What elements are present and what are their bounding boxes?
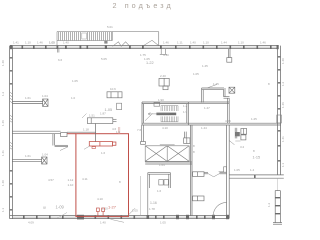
red highlight rectangle room 1-27: [76, 134, 129, 217]
door swing at bottom-left window: [58, 213, 68, 219]
svg-text:1.46: 1.46: [163, 41, 169, 45]
wall stub above elevator left: [141, 125, 146, 144]
svg-text:1.2: 1.2: [183, 104, 188, 108]
top-right room wall y89: [202, 88, 230, 103]
interior wall y102: [12, 102, 43, 104]
svg-text:4.10: 4.10: [97, 197, 103, 201]
exterior bottom wall: [10, 216, 229, 219]
svg-text:1.12: 1.12: [68, 178, 74, 182]
svg-text:4.10: 4.10: [163, 53, 169, 57]
svg-text:1.46: 1.46: [1, 120, 5, 126]
svg-text:ш: ш: [43, 206, 46, 210]
door swing upper-left of desk: [82, 114, 87, 119]
svg-text:1.11: 1.11: [177, 41, 183, 45]
french door swing zigzag: [113, 42, 130, 47]
svg-text:1-09: 1-09: [56, 205, 65, 210]
svg-text:1.05: 1.05: [193, 72, 199, 76]
box right of wall x191 bottom: [193, 196, 204, 201]
svg-text:8: 8: [119, 180, 121, 184]
stair direction line with arrow: [148, 113, 170, 116]
light partition line x140: [139, 176, 141, 216]
corridor south wall y173 with double door: [204, 172, 227, 174]
svg-text:5.05: 5.05: [101, 57, 107, 61]
svg-text:1.40: 1.40: [190, 41, 196, 45]
fixtures below corridor wall at x222: [235, 128, 246, 140]
wc walls (P shape): [148, 173, 171, 216]
stub below top wall at x228: [227, 49, 232, 63]
light pink partition right of desk: [118, 127, 120, 134]
door swing above wall y89: [208, 85, 217, 88]
svg-text:4.09: 4.09: [28, 221, 34, 225]
svg-text:1-15: 1-15: [253, 156, 261, 160]
svg-text:1.40: 1.40: [1, 60, 5, 66]
svg-text:1.05: 1.05: [49, 41, 55, 45]
shaft box top-right room: [229, 87, 235, 93]
pier box at end of wall y132: [61, 133, 67, 137]
svg-text:1.78: 1.78: [149, 207, 155, 211]
door swing arc bottom-right: [213, 202, 226, 215]
wall y103 right section: [188, 102, 229, 104]
dark wall segment over red top edge: [67, 131, 96, 133]
svg-text:1.05: 1.05: [132, 209, 138, 213]
svg-text:1.45: 1.45: [202, 64, 208, 68]
small chair furniture: [117, 103, 122, 109]
svg-text:1.2: 1.2: [281, 81, 285, 86]
svg-text:1.46: 1.46: [260, 41, 266, 45]
svg-text:1.44: 1.44: [221, 41, 227, 45]
elevator bottom wall: [145, 162, 192, 164]
svg-text:5.01: 5.01: [107, 25, 113, 29]
svg-text:2.40: 2.40: [160, 74, 166, 78]
elevator shelf line: [160, 144, 175, 146]
corridor wall x191: [190, 125, 192, 216]
dimension texts top row: [13, 25, 266, 45]
svg-text:1.40: 1.40: [1, 180, 5, 186]
svg-text:1.46: 1.46: [37, 41, 43, 45]
bottom wall piers: [23, 215, 229, 220]
svg-text:4.10: 4.10: [162, 126, 168, 130]
svg-text:8: 8: [253, 149, 255, 153]
exterior right wall: [278, 46, 281, 175]
svg-text:1.41: 1.41: [1, 150, 5, 156]
porch right wall: [158, 32, 160, 46]
furniture top-middle room: [159, 78, 169, 89]
right loggia column strip: [273, 191, 282, 225]
door swing below furniture: [84, 146, 90, 149]
left wall hatched pier: [10, 92, 13, 150]
elevator shaft with x-bracing: [145, 146, 189, 162]
balcony slab top edge: [57, 31, 159, 33]
crossed pier at end of wall y160: [42, 157, 47, 164]
svg-text:1.05: 1.05: [72, 79, 78, 83]
svg-text:1.61: 1.61: [25, 96, 31, 100]
door swing at closet: [60, 147, 68, 151]
svg-text:3.2: 3.2: [240, 145, 245, 149]
dimension texts left margin (rotated): [1, 60, 5, 212]
pier notch on wall x227: [224, 167, 227, 172]
right wall piers: [277, 56, 282, 162]
stair lower treads: [161, 116, 178, 121]
vertical wall x228 down to corridor: [228, 98, 230, 123]
bottom wall glazing line: [12, 216, 212, 218]
top wall window glazing line: [12, 46, 277, 48]
svg-text:1.45: 1.45: [213, 82, 219, 86]
left wall piers: [9, 57, 13, 211]
porch door swing: [144, 40, 158, 45]
svg-text:1.40: 1.40: [63, 41, 69, 45]
svg-text:1.1: 1.1: [1, 207, 5, 212]
exterior left wall: [10, 46, 13, 219]
exterior top wall: [10, 46, 279, 49]
balcony left edge: [56, 32, 58, 46]
loggia strip ticks: [275, 197, 280, 214]
svg-text:1.87: 1.87: [100, 112, 106, 116]
svg-text:1.10: 1.10: [102, 207, 108, 211]
svg-text:1.46: 1.46: [281, 102, 285, 108]
dark pier in fixture cluster: [235, 132, 240, 136]
red top edge extension to wall pier: [67, 133, 76, 135]
svg-text:4.11: 4.11: [82, 177, 88, 181]
svg-text:1.90: 1.90: [158, 98, 164, 102]
svg-text:1.47: 1.47: [204, 106, 210, 110]
desk above red room: [87, 118, 116, 124]
svg-text:8: 8: [193, 144, 195, 148]
door swing in bottom wall mid: [111, 219, 125, 222]
balcony hatching left part: [59, 32, 81, 40]
svg-text:8: 8: [268, 82, 270, 86]
bottom-right horizontal wall y178: [229, 175, 284, 178]
red door jambs on bottom wall: [97, 208, 105, 216]
svg-text:1-16: 1-16: [150, 201, 157, 205]
svg-text:1.2: 1.2: [1, 91, 5, 96]
red furniture block A: [89, 142, 116, 146]
stair landing bar: [156, 113, 176, 116]
door swing inside stair: [145, 113, 153, 120]
interior annotation texts: [25, 41, 285, 225]
faint link right wall to loggia strip: [277, 178, 279, 190]
red tick below furniture: [92, 147, 96, 149]
svg-text:1.04: 1.04: [42, 153, 48, 157]
svg-text:1-27: 1-27: [108, 204, 117, 209]
svg-text:1.1: 1.1: [281, 162, 285, 167]
balcony right border: [111, 32, 113, 41]
svg-text:7.6: 7.6: [137, 128, 142, 132]
crossed pier at end of wall y102: [43, 99, 48, 106]
top wall piers: [10, 45, 279, 49]
closet wall L-shape at x53: [53, 134, 68, 146]
balcony slab bottom edge: [57, 40, 112, 42]
svg-text:1.41: 1.41: [281, 136, 285, 142]
svg-text:1.61: 1.61: [25, 154, 31, 158]
svg-text:1.4: 1.4: [250, 168, 255, 172]
tick marks below cluster: [235, 140, 240, 142]
svg-text:1.40: 1.40: [100, 221, 106, 225]
svg-text:10.6: 10.6: [110, 87, 116, 91]
pier tick on wall y175: [254, 175, 256, 179]
svg-text:1.05: 1.05: [234, 168, 240, 172]
svg-text:1.10: 1.10: [68, 183, 74, 187]
svg-text:1.25: 1.25: [251, 117, 257, 121]
wall stub below top wall at x57: [57, 49, 59, 53]
svg-text:1.04: 1.04: [42, 94, 48, 98]
balcony hatching right part: [88, 32, 112, 40]
svg-text:1.41: 1.41: [13, 41, 19, 45]
box right of wall x191 top: [193, 172, 204, 177]
svg-text:6.6: 6.6: [58, 58, 63, 62]
long corridor wall y124: [142, 123, 281, 125]
dark pier blob under balcony end: [104, 41, 107, 44]
svg-text:1.05: 1.05: [160, 221, 166, 225]
wall stub below desk: [95, 124, 97, 142]
svg-text:1.0: 1.0: [71, 96, 76, 100]
entry stub below wall x160: [160, 49, 167, 55]
bottom-right vertical wall x228: [227, 125, 230, 219]
svg-text:1.6: 1.6: [157, 189, 162, 193]
stair upper treads: [161, 106, 178, 111]
wall stub above elevator right: [184, 132, 190, 144]
furniture piano top-left room: [107, 92, 122, 98]
door swing at red room bottom right: [128, 208, 135, 215]
svg-text:2 подъезд: 2 подъезд: [113, 1, 174, 10]
interior wall y132: [12, 131, 60, 133]
svg-text:1.9: 1.9: [183, 110, 188, 114]
door swing below corridor wall: [229, 141, 234, 145]
svg-text:1.18: 1.18: [83, 127, 89, 131]
svg-text:1.2: 1.2: [267, 202, 271, 207]
balcony door jamb rectangle: [82, 33, 87, 39]
svg-text:1.10: 1.10: [25, 41, 31, 45]
svg-text:1-22: 1-22: [146, 61, 154, 65]
svg-text:1.64: 1.64: [159, 163, 165, 167]
svg-text:4.45: 4.45: [225, 119, 231, 123]
svg-text:4.57: 4.57: [48, 178, 54, 182]
svg-text:1.51: 1.51: [89, 114, 95, 118]
svg-text:1.44: 1.44: [201, 126, 207, 130]
stair shaft walls: [142, 102, 188, 125]
svg-text:1.3: 1.3: [116, 130, 121, 134]
svg-text:1.10: 1.10: [238, 41, 244, 45]
double door leaves: [208, 174, 220, 177]
svg-text:8: 8: [193, 150, 195, 154]
interior wall y160: [12, 159, 42, 161]
svg-text:1.6: 1.6: [101, 151, 106, 155]
wc fixtures: [159, 180, 169, 185]
stair shaft door jamb: [154, 103, 160, 107]
svg-text:1.10: 1.10: [203, 41, 209, 45]
svg-text:1.40: 1.40: [281, 58, 285, 64]
